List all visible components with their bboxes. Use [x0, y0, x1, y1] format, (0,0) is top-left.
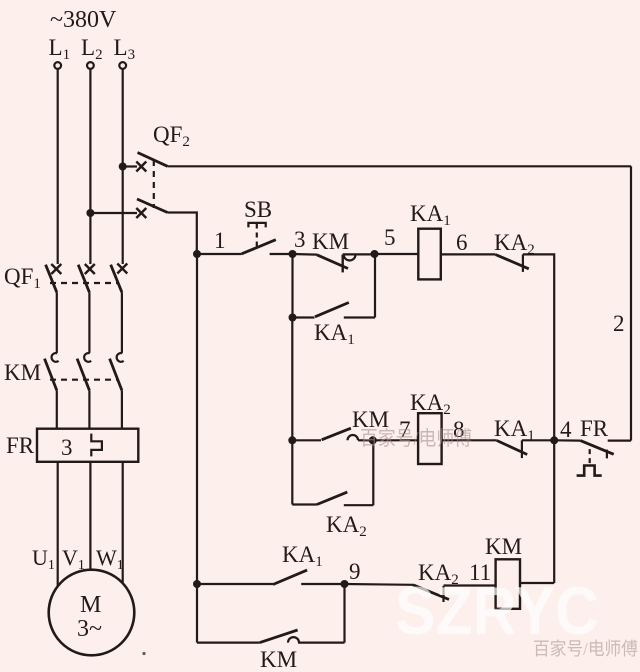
- node 7 dot: [369, 436, 377, 444]
- wire dot-blade: [292, 439, 321, 441]
- FR trip dashed: [589, 449, 591, 463]
- svg-text:KM: KM: [312, 229, 349, 254]
- wire QF2 pole2 out: [168, 213, 197, 255]
- wire node9-KA2: [345, 583, 414, 586]
- wire coil-node4 vertical: [520, 582, 554, 584]
- KM NC bar: [342, 255, 344, 273]
- svg-text:百家号/电师傅: 百家号/电师傅: [360, 427, 472, 450]
- breaker mark x QF2 pole1: [136, 162, 146, 172]
- QF1 pole1 blade: [46, 265, 57, 293]
- wire W1 to motor: [122, 462, 124, 583]
- wire node7-coil: [373, 439, 418, 441]
- right vertical up to node7: [372, 440, 374, 505]
- KM main pole2 hook: [84, 353, 91, 362]
- QF2 pole1 blade: [138, 153, 168, 167]
- node 7 label: [399, 417, 411, 442]
- svg-text:6: 6: [456, 230, 468, 255]
- rung3 left dot: [193, 580, 201, 588]
- FR NC bar: [606, 450, 608, 459]
- wire node5-coil: [375, 253, 419, 255]
- parallel branch KA2 NO (rung2): [292, 503, 317, 505]
- svg-text:FR: FR: [6, 433, 35, 458]
- relay coil KA1 label: [410, 201, 451, 229]
- node junction on L2: [86, 209, 94, 217]
- label W1: [96, 545, 124, 573]
- parallel branch KA1 NO: left vertical: [291, 254, 293, 318]
- node 1 dot: [193, 250, 201, 258]
- svg-text:1: 1: [214, 228, 226, 253]
- contact KM NC label (rung1): [312, 229, 349, 254]
- left control bus: [196, 254, 198, 643]
- contactor coil KM label: [485, 534, 522, 559]
- svg-text:KM: KM: [4, 360, 41, 385]
- parallel branch KM NO (bottom): [197, 641, 260, 643]
- wire KM pole2 to FR: [88, 390, 90, 428]
- KA1 NO blade: [315, 303, 349, 317]
- QF2 pole2 blade: [137, 199, 168, 213]
- rung2 left dot: [288, 436, 296, 444]
- terminal L1: [54, 62, 61, 69]
- wire KM-node5: [343, 253, 375, 255]
- wire hook-right: [298, 641, 345, 643]
- SB actuator cap: [248, 223, 265, 228]
- QF1 pole3 blade: [111, 265, 122, 293]
- label ~380V: [50, 7, 117, 33]
- KA1 NC bar: [521, 440, 523, 458]
- FR box: [37, 429, 138, 462]
- svg-text:KM: KM: [485, 534, 522, 559]
- node 6 label: [456, 230, 468, 255]
- wire KA1NC-node4: [522, 439, 554, 441]
- contact KA1 NC label (rung2): [494, 416, 535, 444]
- pushbutton SB label: [244, 197, 272, 222]
- svg-text:9: 9: [349, 559, 361, 584]
- wire blade-node9: [301, 583, 344, 585]
- label L1: [49, 35, 71, 63]
- wire rung1 node1-SB: [197, 253, 242, 255]
- svg-text:2: 2: [613, 311, 625, 336]
- wire to blade: [293, 316, 315, 318]
- contact KA2 NC label (rung1): [494, 230, 535, 258]
- contact KA2 label (parallel rung2): [326, 512, 367, 540]
- node 3 dot: [289, 250, 297, 258]
- motor label 3~: [77, 616, 102, 642]
- wire KM pole1 to FR: [56, 390, 58, 428]
- node 11 label: [469, 560, 491, 585]
- top bus wire to right: [168, 165, 632, 167]
- wire node4-FR: [554, 439, 580, 442]
- relay coil KA2: [418, 413, 442, 464]
- right vertical up to node5: [374, 254, 376, 318]
- wire QF1 pole2 out: [88, 292, 90, 353]
- KM linkage dashed: [50, 379, 117, 381]
- node 4 dot: [550, 436, 558, 444]
- QF2 linkage dashed: [153, 160, 155, 208]
- wire L3 vertical: [122, 69, 124, 264]
- wire hook-node7: [358, 439, 373, 441]
- svg-text:FR: FR: [580, 416, 609, 441]
- svg-text:KM: KM: [260, 647, 297, 672]
- svg-text:SZRYC: SZRYC: [395, 573, 599, 649]
- SB actuator dashed: [256, 224, 258, 248]
- wire QF1 pole3 out: [121, 292, 123, 353]
- motor M circle: [49, 570, 135, 656]
- node 5 dot: [371, 250, 379, 258]
- svg-text:5: 5: [384, 225, 396, 250]
- node 8 label: [453, 417, 465, 442]
- FR NC blade: [580, 441, 613, 455]
- svg-text:百家号/电师傅: 百家号/电师傅: [533, 639, 638, 659]
- KA2 NC bar (rung3): [442, 586, 444, 602]
- svg-text:~380V: ~380V: [50, 7, 117, 33]
- wire L2 vertical: [89, 69, 91, 264]
- KM main pole3 hook: [117, 353, 124, 362]
- node 3 label: [294, 227, 306, 252]
- label V1: [62, 545, 85, 573]
- contactor coil KM: [496, 559, 520, 609]
- KM NO hook (rung2): [348, 435, 359, 440]
- KM main pole1 blade: [45, 359, 57, 391]
- KM NO blade (rung2): [322, 428, 351, 440]
- node 1 label: [214, 228, 226, 253]
- label U1: [32, 545, 55, 573]
- node4 vertical down to KM coil: [553, 440, 555, 583]
- svg-text:M: M: [80, 592, 101, 618]
- relay coil KA1: [418, 229, 441, 280]
- KM NO hook (bottom): [288, 637, 299, 643]
- svg-text:3: 3: [61, 435, 73, 460]
- FR heater element symbol: [91, 434, 102, 457]
- wire QF1 pole1 out: [56, 292, 58, 353]
- KA1 NO blade (rung3): [273, 570, 307, 584]
- contact KA1 NO label (rung3): [282, 542, 323, 570]
- KM NO blade (bottom): [260, 630, 298, 643]
- KA2 NC blade: [496, 255, 529, 269]
- wire KA2-coil KM: [444, 584, 496, 586]
- svg-text:4: 4: [560, 417, 572, 442]
- node 9 dot: [341, 580, 349, 588]
- contact KA2 NC label (rung3): [418, 560, 459, 588]
- KA2 NC blade (rung3): [413, 585, 449, 600]
- KA2 NC bar: [522, 254, 524, 272]
- wire KA2-corner, down to node4: [523, 254, 554, 440]
- FR trip symbol: [577, 466, 602, 476]
- contact FR NC label: [580, 416, 609, 441]
- wire bus-KA1 blade: [197, 583, 273, 585]
- wire V1 to motor: [89, 462, 91, 570]
- wire coil-KA2: [441, 253, 496, 255]
- node 5 label: [384, 225, 396, 250]
- contact KM NO label (rung2): [352, 407, 389, 432]
- wire SB-node3: [270, 253, 293, 255]
- breaker mark x QF2 pole2: [136, 208, 146, 218]
- label L2: [81, 35, 103, 63]
- motor label M: [80, 592, 101, 618]
- wire L1 vertical: [57, 69, 59, 264]
- label L3: [114, 35, 136, 63]
- node 2 label: [613, 311, 625, 336]
- breaker mark x QF1 pole1: [51, 264, 61, 274]
- KA2 NO blade: [317, 492, 347, 504]
- contactor KM main label: [4, 360, 41, 385]
- QF1 pole2 blade: [78, 265, 89, 293]
- terminal L2: [87, 62, 94, 69]
- svg-text:3: 3: [294, 227, 306, 252]
- KM main pole2 blade: [77, 359, 89, 391]
- KM NC blade: [317, 255, 348, 269]
- wire blade-right: [344, 504, 374, 506]
- KM main pole3 blade: [110, 359, 122, 391]
- wire blade-right: [344, 316, 375, 318]
- KA1 NC blade (rung2): [497, 441, 527, 455]
- svg-text:SB: SB: [244, 197, 272, 222]
- wire U1 to motor: [57, 462, 59, 586]
- right bus wire (line 2): [630, 166, 632, 440]
- thermal relay FR label: [6, 433, 35, 458]
- terminal L3: [119, 62, 126, 69]
- wire QF2 pole1 stub: [123, 165, 137, 167]
- wire QF2 pole2 stub: [90, 212, 137, 214]
- contact KM label (bottom): [260, 647, 297, 672]
- breaker mark x QF1 pole2: [85, 264, 95, 274]
- QF1 linkage dashed: [50, 282, 117, 284]
- wire KM pole3 to FR: [121, 390, 123, 428]
- wire FR-right bus: [608, 440, 631, 442]
- rung2: vertical from node3 branch: [291, 318, 293, 505]
- breaker QF1 label: [4, 264, 41, 292]
- SB blade: [242, 240, 276, 254]
- svg-text:3~: 3~: [77, 616, 102, 642]
- KM NC hook: [344, 255, 356, 261]
- node 4 label: [560, 417, 572, 442]
- KM main pole1 hook: [52, 353, 59, 362]
- relay coil KA2 label: [410, 390, 451, 418]
- speck artifact: [142, 652, 145, 655]
- wire node3-KM blade: [293, 253, 318, 256]
- breaker mark x QF1 pole3: [117, 264, 127, 274]
- wire coil-KA1NC: [442, 439, 497, 441]
- node 9 label: [349, 559, 361, 584]
- breaker QF2 label: [153, 122, 190, 150]
- right vertical up to node9: [343, 584, 345, 643]
- node junction on L3: [119, 163, 127, 171]
- FR box label 3: [61, 435, 73, 460]
- junction dot: [289, 314, 297, 322]
- contact KA1 label (parallel rung1): [314, 320, 355, 348]
